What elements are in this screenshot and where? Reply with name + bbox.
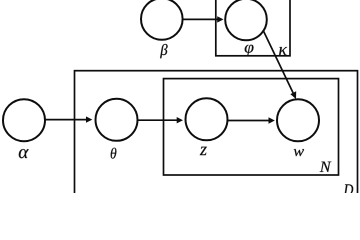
node beta [141,0,183,40]
node theta [96,99,138,141]
label D [344,184,354,195]
node z [186,98,228,140]
node phi [225,0,267,40]
arrow phi to w [263,30,296,99]
plate K (around phi, top cut off) [216,0,290,56]
label kappa [279,47,287,55]
node alpha [3,99,45,141]
arrow theta to z [138,117,183,123]
arrow alpha to theta [45,116,92,122]
plate D (outer document plate, bottom cut off) [75,71,358,211]
label z [200,147,207,155]
label beta [160,44,168,58]
arrow beta to phi [182,16,223,22]
label N [320,162,332,172]
label alpha [19,149,29,158]
label phi [245,45,254,56]
label theta [111,148,117,159]
node w [277,99,319,141]
label w [294,149,304,156]
plate N (inner word plate) [164,79,339,175]
arrow z to w [228,117,275,123]
